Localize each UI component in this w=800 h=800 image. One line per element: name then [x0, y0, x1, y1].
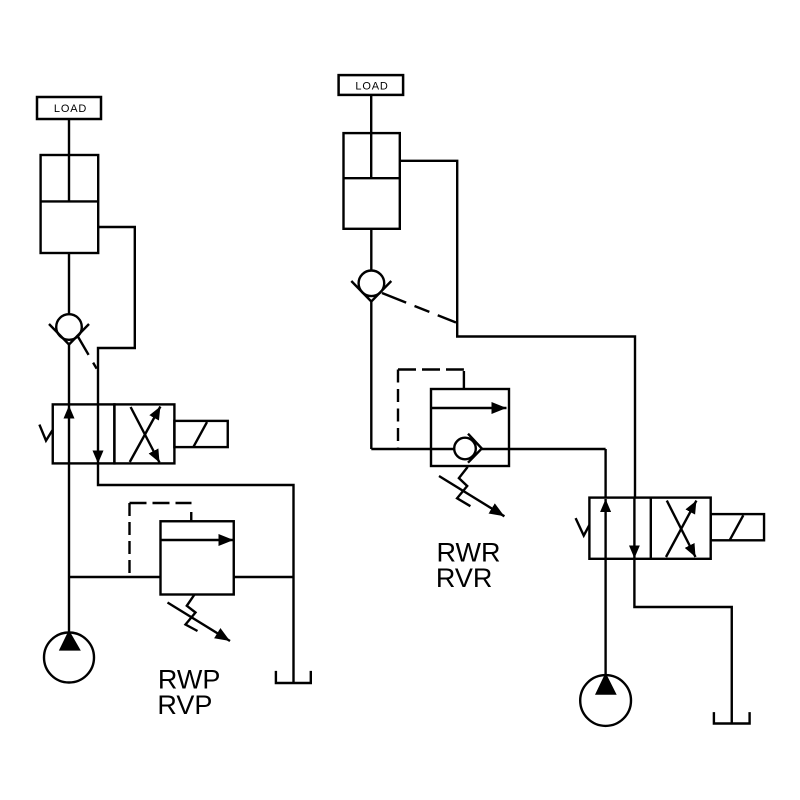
svg-text:RVP: RVP — [157, 690, 212, 720]
svg-text:LOAD: LOAD — [355, 81, 388, 93]
svg-text:RVR: RVR — [436, 563, 493, 593]
svg-text:LOAD: LOAD — [54, 103, 87, 115]
